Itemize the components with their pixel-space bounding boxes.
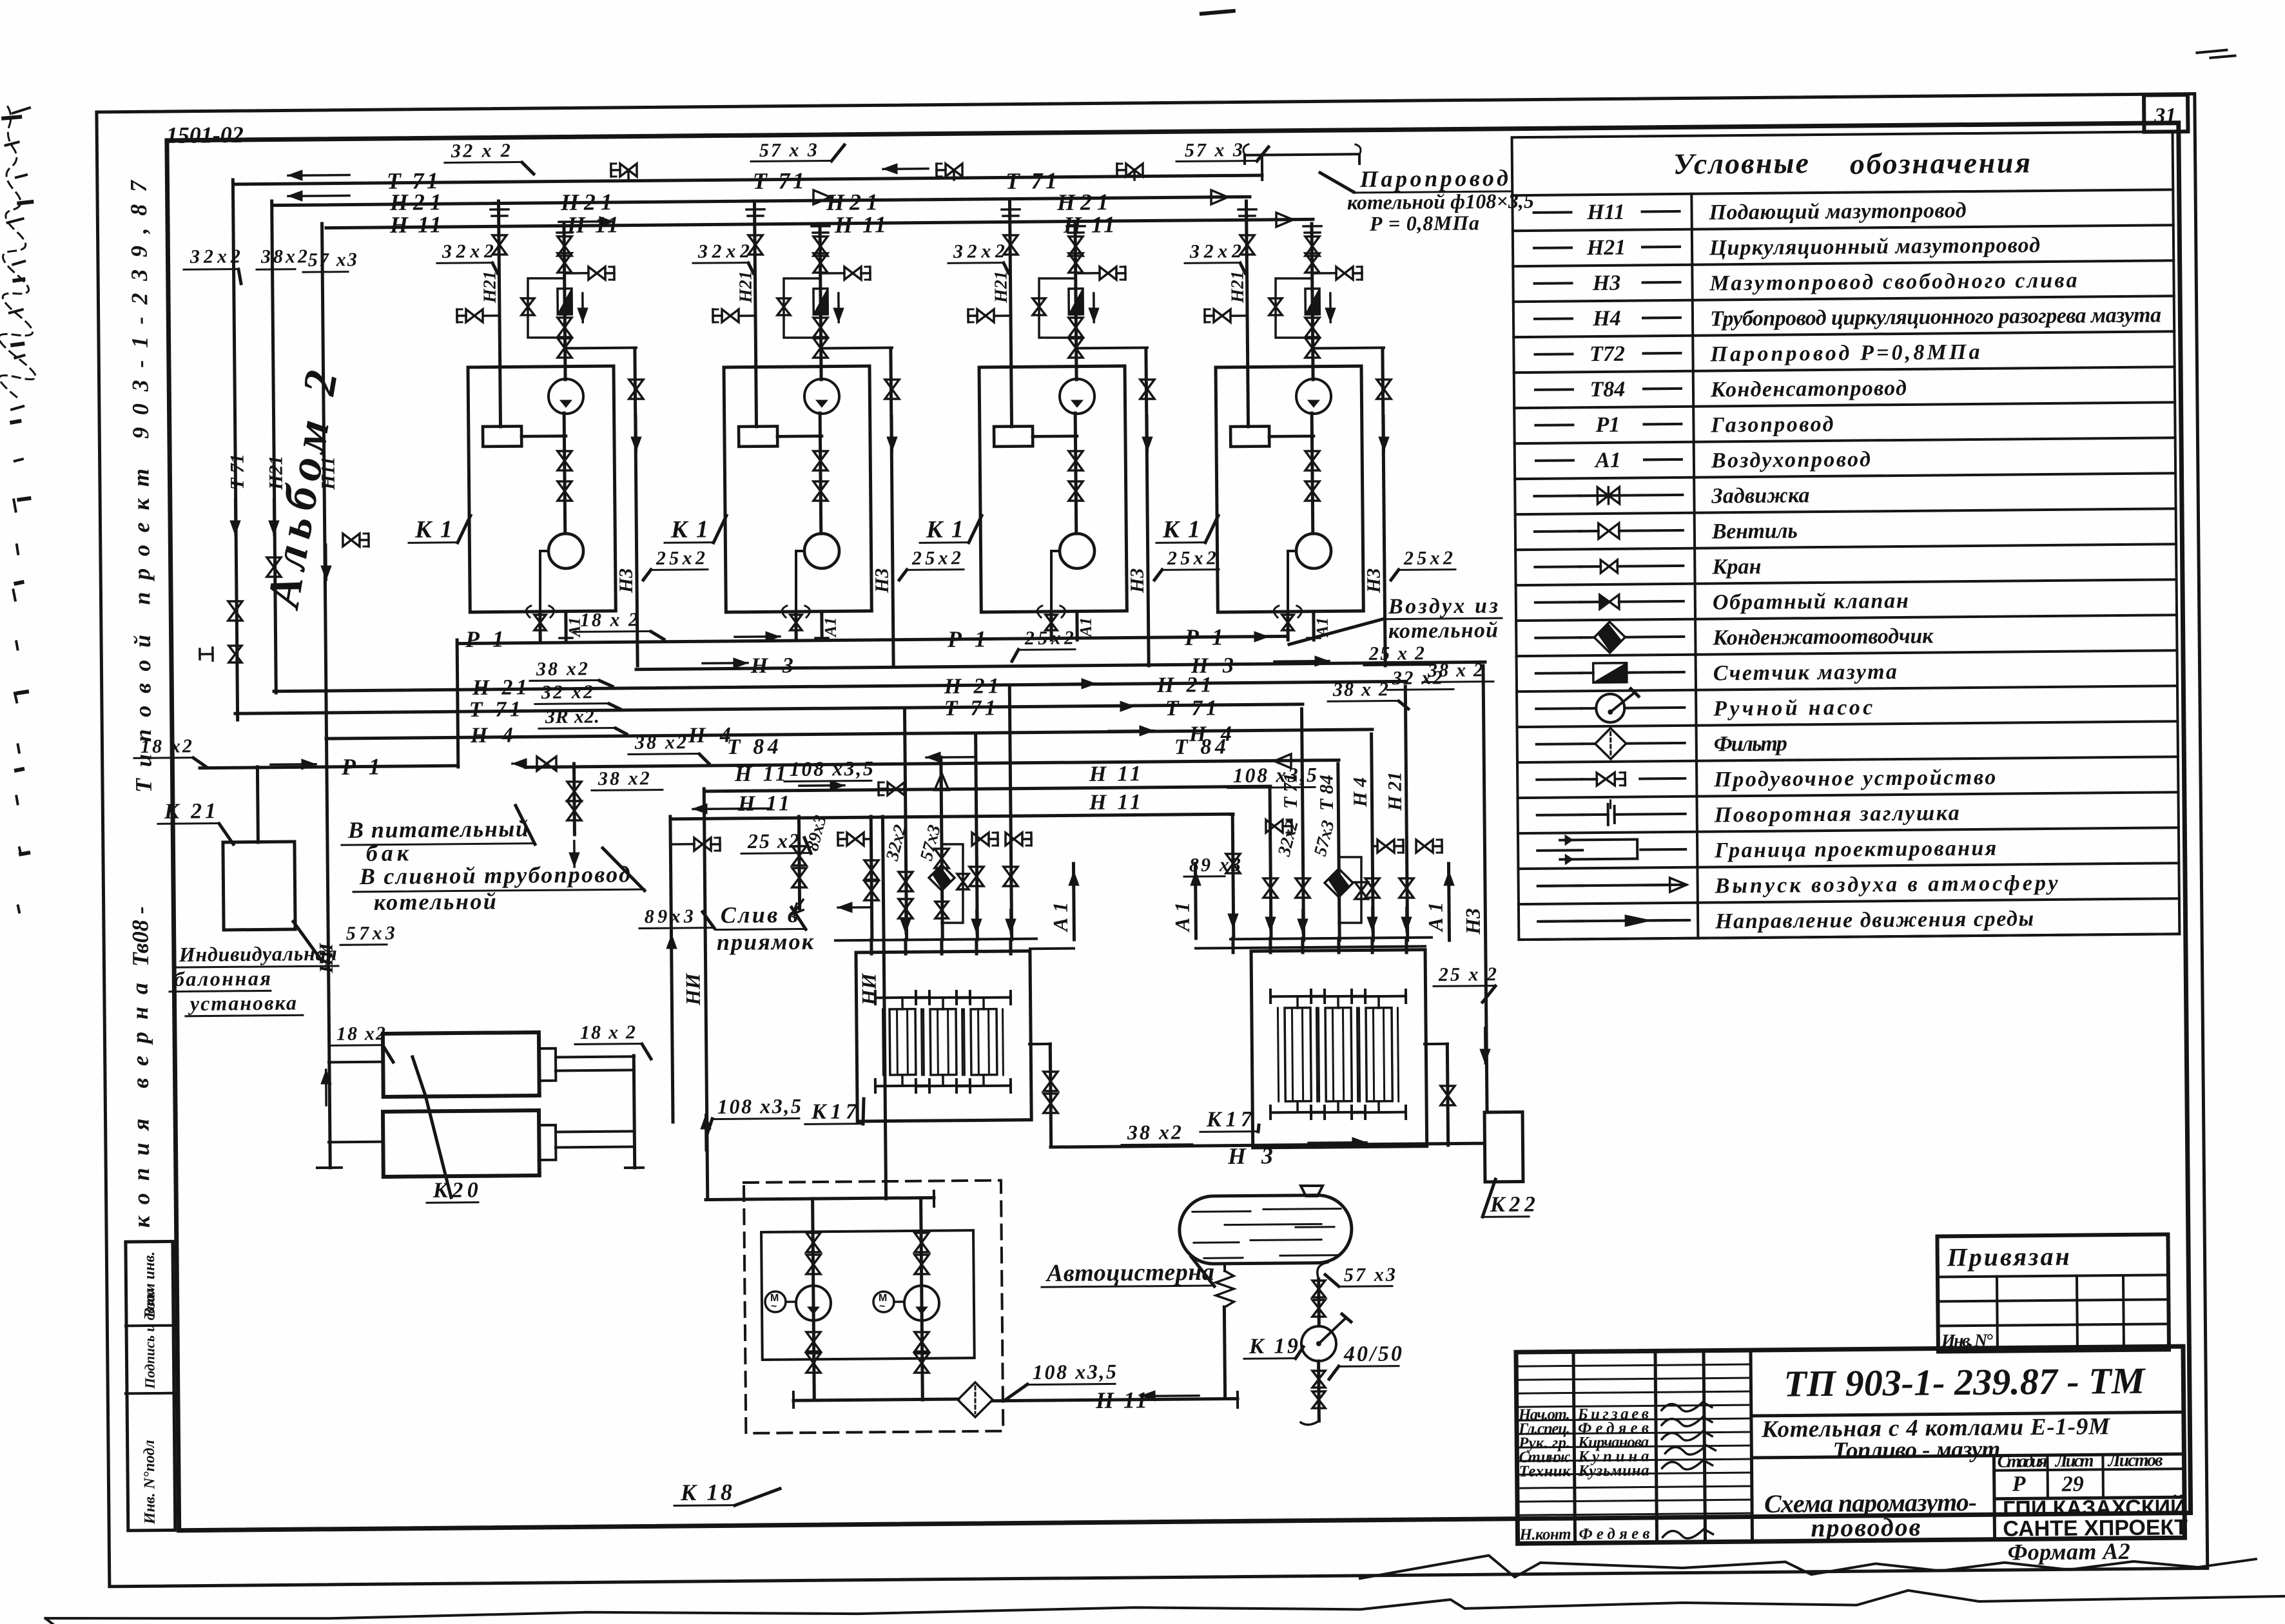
svg-text:Подающий мазутопровод: Подающий мазутопровод	[1708, 198, 1966, 224]
svg-text:Инв. N°подл: Инв. N°подл	[141, 1440, 159, 1525]
svg-text:Н3: Н3	[1363, 568, 1385, 594]
K17#1 outlet to N3 bottom	[1029, 1043, 1051, 1045]
K1 #4 N3 riser	[1314, 347, 1384, 350]
K1 #3 N11 riser	[1075, 224, 1076, 380]
svg-text:ТП 903-1- 239.87 - ТМ: ТП 903-1- 239.87 - ТМ	[1784, 1360, 2146, 1405]
K17 riser stub 1	[1231, 938, 1234, 952]
svg-text:Топливо - мазут: Топливо - мазут	[1833, 1436, 2000, 1464]
bottom-right scan squiggle	[1360, 1549, 2256, 1578]
K20 tank upper	[383, 1032, 540, 1097]
svg-text:Тв08 -: Тв08 -	[127, 906, 153, 967]
K17 riser stub 6	[1405, 938, 1408, 952]
K21 drop	[257, 767, 258, 842]
tank K22	[1484, 1112, 1523, 1183]
K1 #4 bypass loop	[1275, 278, 1313, 338]
K17 manifold	[835, 939, 1036, 941]
K17 A1 vent	[1195, 864, 1196, 938]
sliv v priyamok branch	[799, 817, 799, 909]
svg-text:40/50: 40/50	[1343, 1342, 1402, 1366]
K17#2 risers from bundle lines	[1270, 789, 1271, 938]
svg-text:Лист: Лист	[2054, 1451, 2094, 1471]
pipe P1 lower branch	[200, 766, 458, 768]
K1 #3 burner pump circle	[1060, 379, 1094, 414]
K17 box	[1251, 950, 1427, 1148]
boiler K1 #3	[979, 366, 1127, 612]
K1 #2 lower pump	[820, 413, 821, 534]
K1 #3 burner box	[994, 426, 1033, 447]
legend row: Выпуск воздуха в атмосферу	[1538, 884, 1583, 887]
pipe P1 upper	[458, 636, 1288, 643]
svg-text:Поворотная заглушка: Поворотная заглушка	[1714, 801, 1959, 827]
K18 pump branch 2	[921, 1199, 923, 1400]
svg-text:Р 1: Р 1	[947, 626, 986, 652]
svg-text:Обратный клапан: Обратный клапан	[1713, 589, 1909, 615]
K1 #2 burner box	[739, 426, 777, 447]
svg-text:Т84: Т84	[1590, 378, 1625, 401]
K1 #3 N21 riser	[1009, 201, 1011, 427]
paper bottom edge	[45, 1587, 2285, 1621]
left risers arrows	[234, 499, 237, 535]
svg-text:Т 84: Т 84	[1174, 735, 1226, 759]
legend row: Поворотная заглушка	[1537, 813, 1582, 817]
left edge scan noise	[0, 106, 36, 399]
discharge line to tank truck	[993, 1398, 1238, 1400]
svg-text:Задвижка: Задвижка	[1711, 483, 1809, 508]
K17 riser stub 4	[1337, 938, 1340, 952]
legend row: Счетчик мазута	[1536, 672, 1581, 675]
legend row: Воздухопровод	[1536, 459, 1573, 462]
privyazan box	[1937, 1234, 2169, 1351]
svg-text:38 х2: 38 х2	[598, 768, 650, 789]
legend row: Задвижка	[1534, 494, 1579, 498]
svg-text:Кузьмина: Кузьмина	[1577, 1462, 1649, 1480]
svg-text:Н11: Н11	[317, 456, 338, 490]
left margin column block	[126, 1241, 175, 1531]
K20 feed stubs from N11 riser	[329, 1061, 383, 1064]
svg-text:приямок: приямок	[717, 929, 814, 955]
left riser valves	[228, 601, 243, 621]
legend row: Конденсатопровод	[1535, 388, 1573, 391]
svg-text:котельной: котельной	[1388, 619, 1498, 643]
svg-text:Листов: Листов	[2107, 1450, 2163, 1471]
K1 #2 burner pump circle	[804, 379, 839, 414]
svg-text:Н.конт: Н.конт	[1519, 1525, 1571, 1543]
svg-text:К17: К17	[811, 1099, 858, 1124]
svg-text:Т 71: Т 71	[1006, 168, 1057, 194]
boiler K1 #4	[1216, 366, 1363, 612]
svg-text:Паропровод Р=0,8МПа: Паропровод Р=0,8МПа	[1709, 340, 1979, 367]
svg-text:31: 31	[2154, 104, 2176, 128]
legend row: Направление движения среды	[1538, 920, 1583, 923]
svg-text:Н3: Н3	[1592, 271, 1621, 295]
K1 #3 P1 stub with valve	[1049, 612, 1053, 640]
K17 box	[856, 951, 1031, 1121]
svg-text:А 1: А 1	[1424, 902, 1447, 933]
svg-text:К17: К17	[1206, 1107, 1253, 1132]
legend row: Граница проектирования	[1537, 849, 1582, 852]
svg-text:Н21: Н21	[480, 271, 500, 304]
svg-text:Н 4: Н 4	[1350, 777, 1371, 807]
K1 #4 burner pump circle	[1296, 379, 1331, 414]
legend row: Паропровод Р=0,8МПа	[1535, 353, 1572, 356]
title block left rows	[1516, 1364, 1751, 1366]
legend row: Газопровод	[1535, 423, 1573, 427]
legend row: Циркуляционный мазутопровод	[1534, 246, 1571, 249]
K1 #1 bypass loop	[527, 278, 565, 338]
K1 #1 P1 stub with valve	[538, 612, 541, 640]
svg-text:Р 1: Р 1	[341, 753, 380, 780]
K17 manifold	[1230, 938, 1432, 940]
K1 #3 A1 stub	[1075, 612, 1078, 640]
svg-text:38 х2: 38 х2	[1127, 1120, 1181, 1144]
svg-text:Н11: Н11	[1586, 200, 1625, 225]
T84 line left flow arrow	[926, 756, 975, 759]
K1 #2 bypass loop	[783, 278, 821, 338]
svg-text:Техник: Техник	[1519, 1462, 1571, 1480]
A1 vent right of K17#2	[1448, 864, 1449, 940]
svg-text:А 1: А 1	[1049, 902, 1072, 933]
svg-text:Инв. N°: Инв. N°	[1941, 1331, 1993, 1351]
K17 riser stub 2	[1269, 938, 1272, 952]
K1 #1 burner box	[483, 426, 521, 447]
svg-text:Подпись и дата: Подпись и дата	[141, 1288, 158, 1390]
legend table	[1512, 131, 2180, 940]
K1 #2 N3 riser	[822, 347, 892, 350]
N3 bottom line	[1051, 1143, 1484, 1147]
svg-text:К20: К20	[433, 1178, 478, 1203]
svg-text:Н 11: Н 11	[389, 211, 442, 238]
svg-text:НИ: НИ	[857, 972, 880, 1006]
K17 riser stub 5	[1370, 938, 1374, 952]
K17#1 condensate trap assembly	[929, 865, 955, 891]
K1 #2 N11 riser	[820, 224, 821, 380]
svg-text:57 х3: 57 х3	[308, 249, 357, 271]
svg-text:Привязан: Привязан	[1947, 1242, 2070, 1272]
svg-text:Циркуляционный мазутопровод: Циркуляционный мазутопровод	[1709, 233, 2040, 260]
svg-text:38 х2: 38 х2	[536, 658, 588, 680]
svg-text:Т 71: Т 71	[469, 697, 521, 722]
legend row: Ручной насос	[1536, 707, 1581, 710]
K20 tank lower	[383, 1110, 540, 1177]
svg-text:Н3: Н3	[1461, 908, 1484, 935]
legend row: Обратный клапан	[1535, 601, 1580, 604]
drain to boiler line drop	[572, 764, 576, 835]
K17 riser stub 4	[975, 940, 978, 954]
K1 #1 burner pump circle	[549, 379, 583, 414]
legend row: Фильтр	[1537, 742, 1582, 746]
legend row: Мазутопровод свободного слива	[1535, 282, 1572, 285]
svg-text:Н 11: Н 11	[1063, 211, 1115, 238]
K1 #4 A1 stub	[1312, 612, 1315, 640]
svg-text:проводов: проводов	[1811, 1513, 1921, 1542]
svg-text:Стадия: Стадия	[1997, 1451, 2047, 1472]
svg-text:1501-02: 1501-02	[166, 122, 244, 148]
svg-text:Выпуск воздуха в атмосферу: Выпуск воздуха в атмосферу	[1715, 871, 2059, 898]
K17#2 outlet	[1424, 1043, 1448, 1045]
K1 #3 fuel meter	[1069, 289, 1083, 314]
K1 #3 N3 riser	[1077, 346, 1147, 349]
K1 #4 N21 riser	[1246, 201, 1248, 427]
K17#1 flow arrows	[904, 910, 907, 933]
svg-text:Паропровод: Паропровод	[1359, 165, 1508, 192]
K1 #4 N11 riser	[1312, 224, 1313, 380]
K17 riser stub 5	[1009, 940, 1012, 954]
K1 #1 lower pump	[564, 413, 565, 534]
svg-text:обозначения: обозначения	[1850, 146, 2030, 180]
svg-text:Кран: Кран	[1711, 555, 1761, 579]
flow arrows top lines	[288, 174, 349, 177]
K19 hand pump branch	[1318, 1262, 1328, 1279]
K1 #1 A1 stub	[564, 612, 567, 640]
K18 filter	[958, 1382, 993, 1417]
pipe N3	[636, 662, 1485, 669]
drawing frame	[167, 123, 2191, 1531]
K18 suction manifold	[706, 1197, 934, 1199]
tank truck shell	[1179, 1195, 1352, 1264]
svg-text:Р 1: Р 1	[1184, 624, 1223, 650]
svg-text:установка: установка	[188, 991, 297, 1015]
K18 motor 1	[765, 1291, 786, 1312]
svg-text:Р 1: Р 1	[465, 626, 504, 652]
svg-text:38 х2: 38 х2	[634, 731, 686, 753]
svg-text:А1: А1	[1594, 449, 1621, 472]
svg-text:Н 11: Н 11	[1095, 1387, 1147, 1413]
K20 outlet pipes	[556, 1056, 634, 1057]
K17#1 riser valves	[864, 860, 879, 880]
svg-text:Формат А2: Формат А2	[2008, 1538, 2130, 1565]
svg-text:котельной: котельной	[374, 888, 496, 915]
legend row: Продувочное устройство	[1537, 778, 1582, 781]
pipe N11 top header	[326, 219, 1313, 227]
K17#2 extra valves/symbols	[1266, 820, 1283, 833]
legend row: Трубопровод циркуляционного разогрева мазута	[1535, 317, 1572, 320]
svg-text:А 1: А 1	[1171, 902, 1194, 933]
K1 #2 fuel meter	[813, 289, 828, 314]
svg-text:Конденжатоотводчик: Конденжатоотводчик	[1712, 624, 1934, 650]
svg-text:29: 29	[2061, 1473, 2084, 1496]
K1 #4 P1 stub with valve	[1286, 612, 1289, 640]
svg-text:25 х2: 25 х2	[747, 829, 799, 853]
K1 #3 bypass loop	[1038, 278, 1076, 338]
pipe N11a	[706, 786, 1270, 791]
svg-text:Индивидуальная: Индивидуальная	[179, 942, 337, 966]
K20 outlet vertical	[634, 1056, 635, 1168]
design boundary bracket	[1261, 155, 1263, 180]
svg-text:Т 84: Т 84	[1316, 775, 1337, 811]
svg-text:Р1: Р1	[1595, 413, 1620, 437]
pipe N11b	[672, 814, 1233, 819]
K17 A1 vent	[1073, 864, 1074, 940]
K17#1 risers from bundle lines	[871, 817, 872, 940]
K1 #4 fuel meter	[1305, 289, 1319, 314]
svg-text:57 х3: 57 х3	[1344, 1264, 1395, 1286]
svg-text:Т 71: Т 71	[753, 168, 804, 194]
legend row: Вентиль	[1535, 530, 1580, 533]
svg-text:Р: Р	[2012, 1472, 2026, 1496]
svg-text:Счетчик мазута: Счетчик мазута	[1713, 660, 1897, 685]
svg-text:Т 84: Т 84	[727, 735, 779, 759]
svg-text:Н21: Н21	[265, 456, 286, 491]
boiler K1 #1	[468, 366, 616, 612]
pipe T71 bundle	[235, 704, 1303, 713]
K1 #4 lower pump	[1312, 413, 1313, 534]
stage/sheet cells	[1994, 1456, 1994, 1540]
svg-text:Т 71: Т 71	[1280, 773, 1301, 809]
svg-text:САНТЕ ХПРОЕКТ: САНТЕ ХПРОЕКТ	[2003, 1515, 2188, 1542]
K18 motor 2	[873, 1291, 894, 1312]
tank truck funnel	[1301, 1186, 1323, 1196]
svg-text:Р = 0,8МПа: Р = 0,8МПа	[1369, 211, 1479, 235]
svg-text:бак: бак	[366, 840, 409, 866]
svg-text:~: ~	[879, 1301, 885, 1312]
pipe N4	[326, 730, 1372, 739]
K1 #3 lower pump	[1075, 413, 1076, 534]
svg-text:В питательный: В питательный	[347, 816, 529, 843]
pipe N21 bundle	[274, 681, 1406, 691]
svg-text:Трубопровод циркуляционного ра: Трубопровод циркуляционного разогрева ма…	[1710, 303, 2161, 331]
svg-text:Н21: Н21	[735, 271, 755, 304]
K1 #4 burner box	[1230, 427, 1269, 447]
tank truck drop with spring	[1223, 1264, 1226, 1271]
svg-text:Ручной насос: Ручной насос	[1713, 695, 1872, 720]
svg-text:Направление движения среды: Направление движения среды	[1715, 907, 2034, 933]
svg-text:К22: К22	[1490, 1192, 1535, 1217]
svg-text:Н3: Н3	[1127, 568, 1148, 594]
svg-text:Газопровод: Газопровод	[1710, 412, 1833, 438]
pipe T71 top header	[235, 175, 1262, 184]
K17 riser stub 1	[870, 940, 873, 954]
svg-text:Вентиль: Вентиль	[1711, 519, 1798, 543]
svg-text:балонная: балонная	[174, 967, 271, 991]
svg-text:А1: А1	[1076, 617, 1095, 639]
svg-text:Граница проектирования: Граница проектирования	[1714, 836, 1996, 863]
K1 #1 fuel meter	[558, 289, 572, 314]
legend row: Конденжатоотводчик	[1535, 636, 1580, 639]
svg-text:котельной ф108×3,5: котельной ф108×3,5	[1347, 189, 1534, 214]
svg-text:Автоцистерна: Автоцистерна	[1045, 1259, 1214, 1287]
K17 riser stub 3	[1301, 938, 1304, 952]
svg-text:Н 11: Н 11	[567, 211, 619, 238]
svg-text:Т 71: Т 71	[944, 696, 996, 720]
K17 riser stub 3	[940, 940, 943, 954]
K17 internals	[875, 996, 929, 1000]
pipe N21 top header	[274, 197, 1250, 205]
pipe T84	[511, 762, 514, 765]
K17#1 vent arrow on T84 riser	[935, 773, 949, 790]
doc name cell	[1751, 1454, 2184, 1458]
K17 riser stub 2	[904, 940, 907, 954]
svg-text:89 х3: 89 х3	[1189, 854, 1241, 876]
blowdown devices on T71	[620, 164, 637, 177]
svg-text:18 х2: 18 х2	[141, 735, 192, 757]
K18 pump branch 1	[813, 1199, 815, 1400]
K1 #1 N11 riser	[564, 224, 565, 380]
signatures	[1662, 1402, 1712, 1412]
K1 #1 N21 riser	[498, 201, 500, 427]
K1 #1 N3 riser	[566, 346, 636, 349]
K18 discharge manifold	[793, 1399, 958, 1400]
svg-text:Н 21: Н 21	[1385, 771, 1406, 811]
doc number cell	[1751, 1412, 2184, 1416]
svg-text:Т 71: Т 71	[1165, 696, 1217, 720]
svg-text:18 х2: 18 х2	[336, 1023, 385, 1045]
svg-text:Н4: Н4	[1592, 307, 1621, 331]
svg-text:Н3: Н3	[616, 568, 637, 594]
svg-text:Фильтр: Фильтр	[1714, 732, 1787, 757]
N3 vertical to K22	[1483, 666, 1487, 1112]
left margin specks	[19, 202, 32, 203]
svg-text:Т72: Т72	[1590, 342, 1625, 366]
svg-text:Условные: Условные	[1673, 146, 1809, 180]
svg-text:А1: А1	[821, 617, 840, 639]
svg-text:В сливной трубопровод: В сливной трубопровод	[359, 861, 630, 889]
svg-text:~: ~	[771, 1301, 777, 1312]
N11 riser bottom tick	[317, 1166, 342, 1169]
svg-text:Н 11: Н 11	[834, 211, 886, 238]
svg-text:Н21: Н21	[1228, 271, 1248, 304]
svg-text:Н21: Н21	[1586, 236, 1626, 260]
svg-text:Т 71: Т 71	[226, 454, 248, 490]
K18 dashed enclosure	[744, 1181, 1003, 1433]
svg-text:32 х2: 32 х2	[541, 681, 593, 703]
K1 #2 A1 stub	[820, 612, 823, 640]
K1 #2 N21 riser	[754, 201, 756, 427]
K21 box	[223, 842, 295, 930]
svg-text:НИ: НИ	[681, 972, 704, 1006]
svg-text:Н21: Н21	[991, 271, 1011, 304]
sheet number box 31	[2144, 95, 2188, 132]
title block columns	[1573, 1351, 1575, 1543]
svg-text:Конденсатопровод: Конденсатопровод	[1710, 376, 1907, 402]
K1 #2 P1 stub with valve	[794, 612, 797, 640]
K17 internals	[1270, 995, 1325, 998]
boiler K1 #2	[724, 366, 871, 612]
svg-text:Н3: Н3	[871, 568, 893, 594]
legend row: Кран	[1535, 565, 1580, 568]
K17#1 blowdowns	[847, 833, 864, 846]
K18 inner box	[761, 1230, 975, 1360]
svg-text:3R х2.: 3R х2.	[545, 706, 599, 728]
N11b left drop with blowdown	[670, 817, 673, 1122]
title block frame	[1516, 1346, 2185, 1543]
legend row: Подающий мазутопровод	[1534, 211, 1571, 214]
tank truck hatching	[1192, 1210, 1250, 1213]
